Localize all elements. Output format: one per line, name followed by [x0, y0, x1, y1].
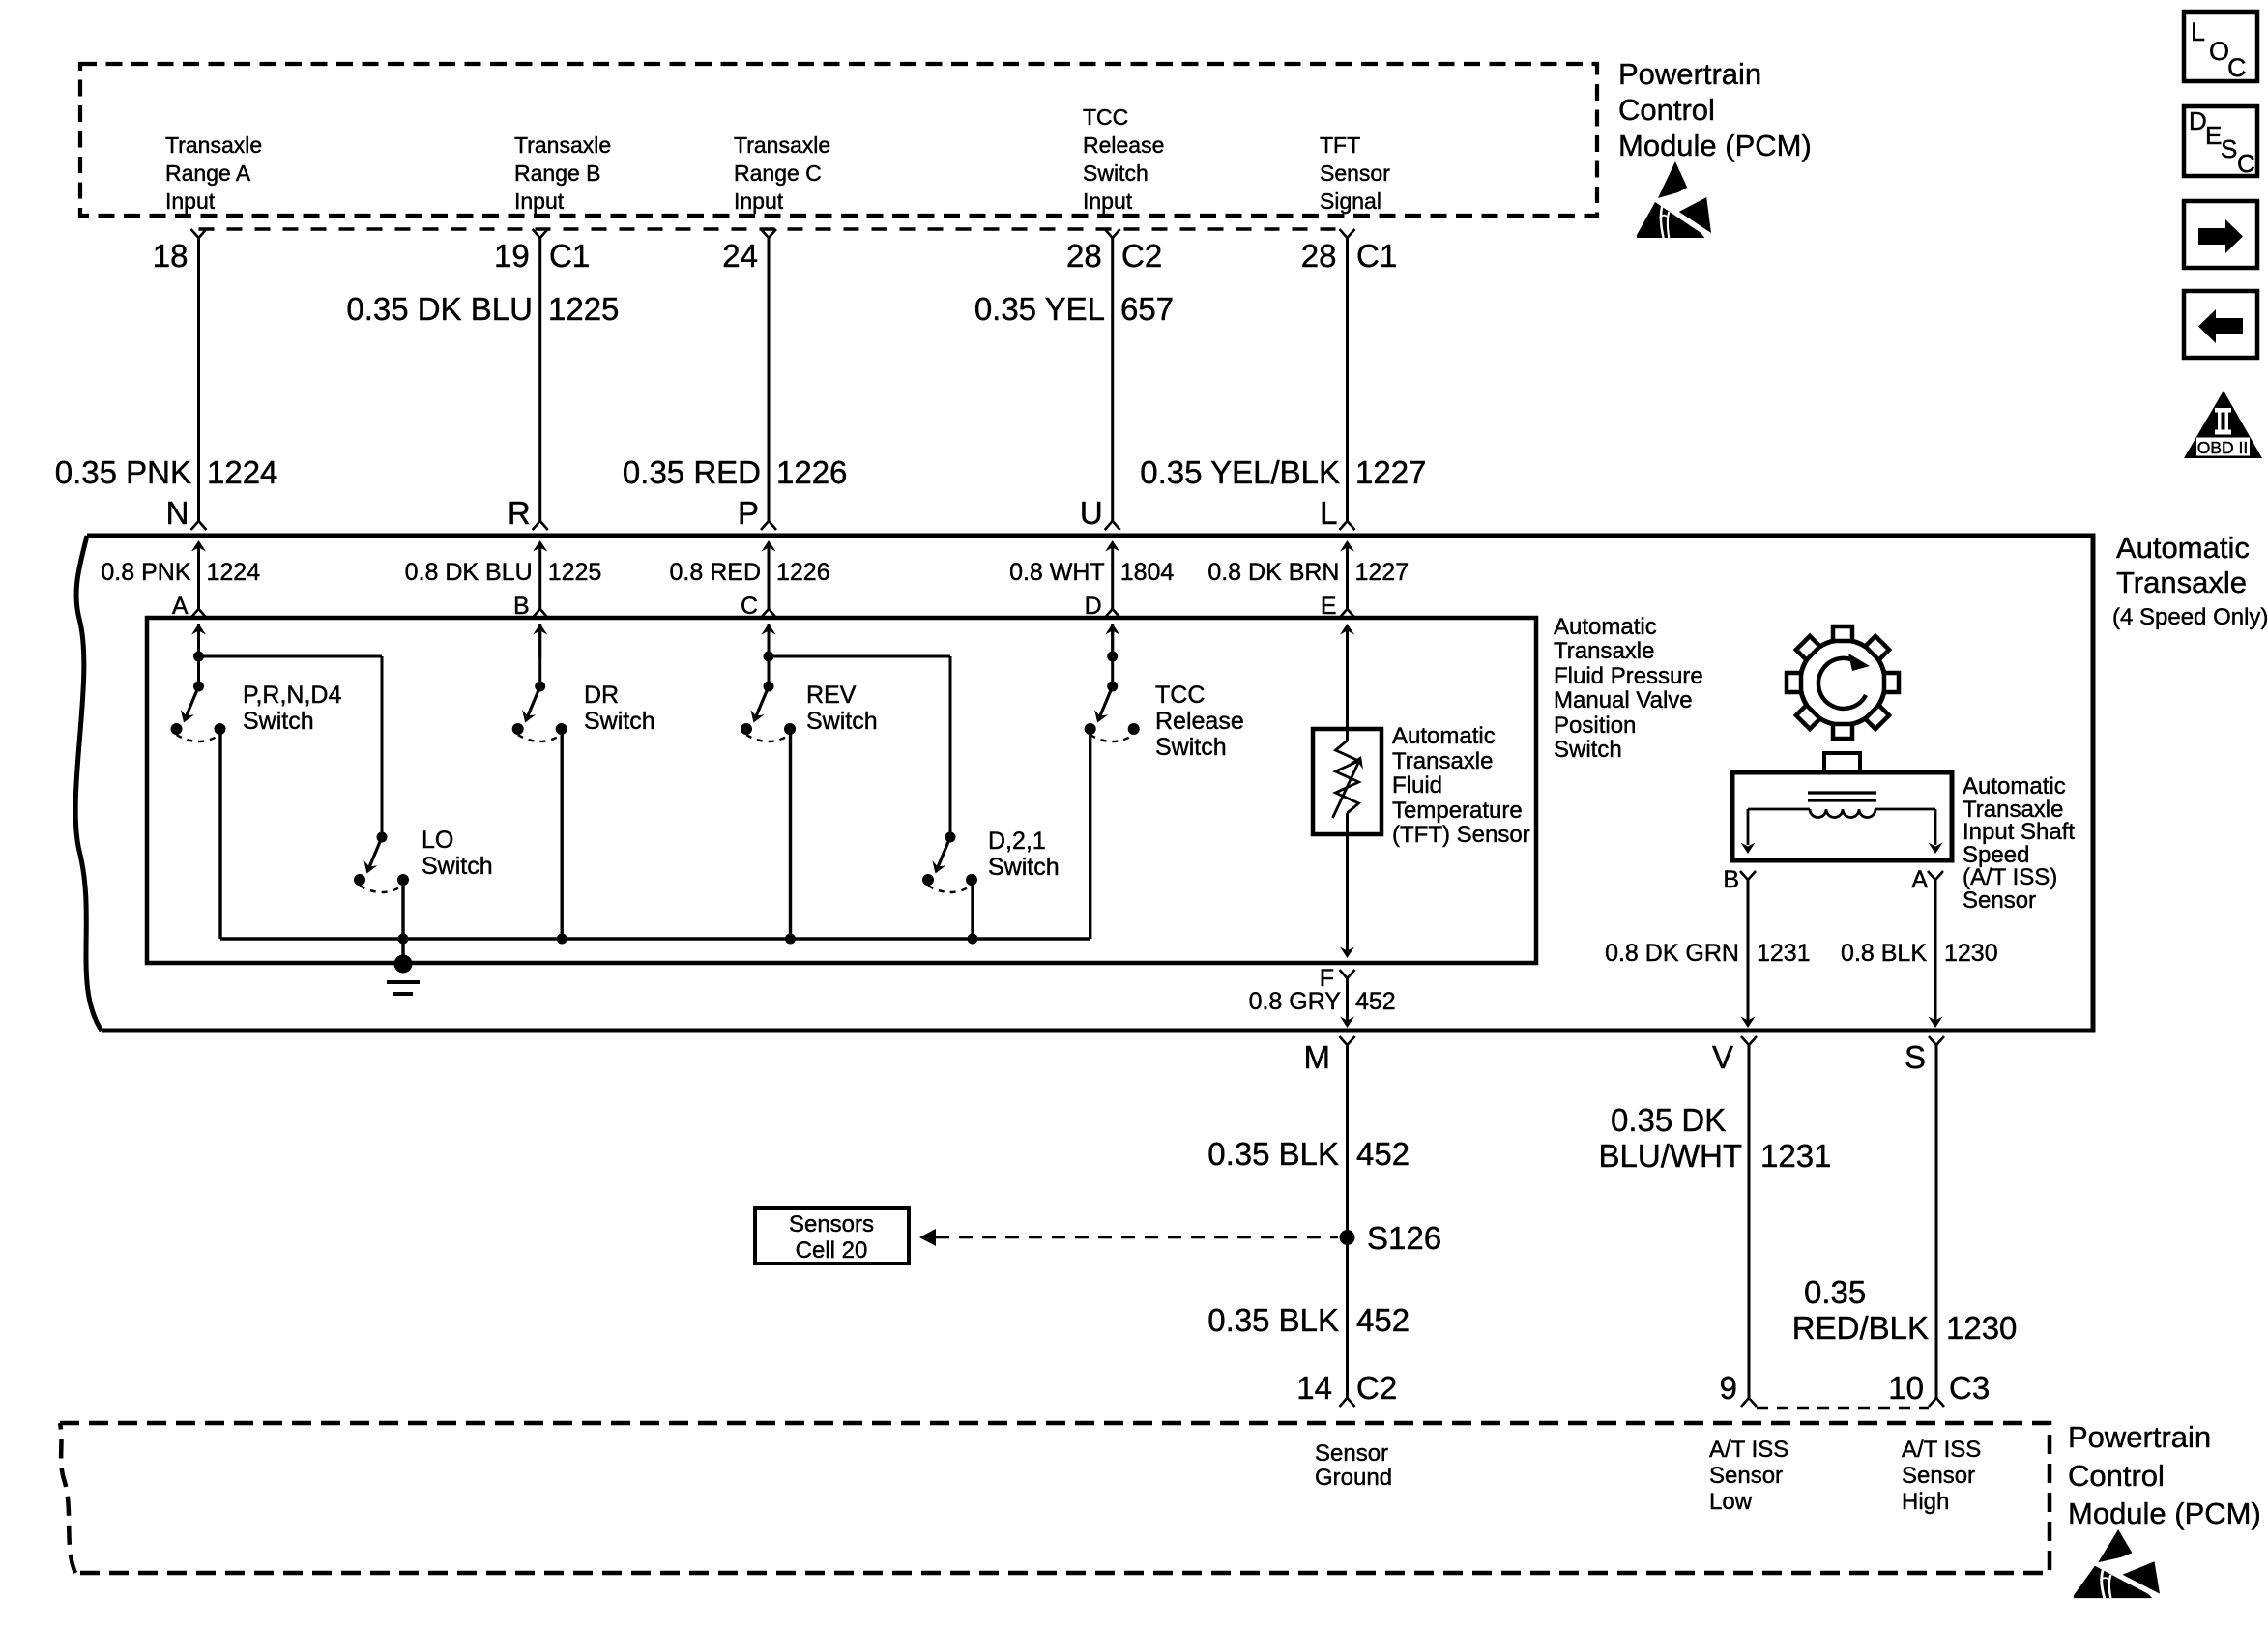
svg-text:Automatic: Automatic — [1392, 723, 1496, 749]
svg-text:19: 19 — [494, 238, 530, 274]
svg-text:Manual Valve: Manual Valve — [1554, 687, 1693, 713]
svg-text:14: 14 — [1296, 1370, 1332, 1406]
svg-text:Fluid: Fluid — [1392, 772, 1442, 799]
svg-text:S: S — [1905, 1039, 1926, 1075]
svg-text:Fluid Pressure: Fluid Pressure — [1554, 663, 1703, 689]
svg-text:Switch: Switch — [806, 708, 878, 735]
svg-text:0.8 RED: 0.8 RED — [670, 559, 761, 586]
svg-text:Cell 20: Cell 20 — [796, 1237, 868, 1264]
svg-text:0.35 PNK: 0.35 PNK — [55, 454, 191, 490]
svg-text:Control: Control — [1618, 93, 1715, 127]
svg-text:Switch: Switch — [243, 708, 314, 735]
svg-text:Input: Input — [165, 189, 216, 214]
svg-text:REV: REV — [806, 682, 857, 709]
svg-text:Transaxle: Transaxle — [165, 132, 262, 158]
svg-text:1230: 1230 — [1946, 1310, 2017, 1346]
svg-text:0.8 DK GRN: 0.8 DK GRN — [1605, 940, 1739, 967]
svg-text:(A/T ISS): (A/T ISS) — [1963, 864, 2057, 890]
svg-text:0.35: 0.35 — [1804, 1274, 1866, 1310]
svg-text:L: L — [1320, 495, 1337, 531]
svg-text:BLU/WHT: BLU/WHT — [1599, 1138, 1743, 1174]
svg-text:1231: 1231 — [1757, 940, 1811, 967]
svg-text:A/T ISS: A/T ISS — [1709, 1437, 1788, 1463]
svg-text:L: L — [2191, 17, 2205, 46]
svg-text:DR: DR — [584, 682, 619, 709]
svg-text:1226: 1226 — [776, 454, 847, 490]
svg-text:Automatic: Automatic — [2116, 531, 2250, 565]
svg-text:0.35 BLK: 0.35 BLK — [1207, 1302, 1339, 1338]
svg-text:0.35 BLK: 0.35 BLK — [1207, 1136, 1339, 1172]
svg-text:28: 28 — [1066, 238, 1102, 274]
svg-text:S126: S126 — [1367, 1220, 1441, 1256]
svg-text:OBD II: OBD II — [2197, 438, 2249, 457]
svg-text:R: R — [508, 495, 531, 531]
svg-text:B: B — [1723, 866, 1739, 893]
svg-text:P: P — [738, 495, 759, 531]
svg-text:Switch: Switch — [988, 854, 1060, 881]
svg-text:657: 657 — [1120, 291, 1174, 327]
svg-text:Input: Input — [514, 189, 565, 214]
svg-text:TFT: TFT — [1320, 132, 1360, 158]
svg-text:0.8 BLK: 0.8 BLK — [1841, 940, 1927, 967]
svg-text:C2: C2 — [1356, 1370, 1397, 1406]
svg-text:S: S — [2221, 134, 2237, 163]
svg-text:N: N — [166, 495, 189, 531]
svg-text:RED/BLK: RED/BLK — [1792, 1310, 1929, 1346]
svg-text:Powertrain: Powertrain — [2068, 1420, 2211, 1454]
svg-text:9: 9 — [1720, 1370, 1737, 1406]
svg-text:Input: Input — [1083, 189, 1133, 214]
svg-text:C2: C2 — [1121, 238, 1162, 274]
svg-text:1225: 1225 — [548, 559, 602, 586]
svg-text:1804: 1804 — [1120, 559, 1175, 586]
svg-text:C1: C1 — [549, 238, 590, 274]
svg-text:Switch: Switch — [1083, 160, 1149, 186]
svg-text:1225: 1225 — [548, 291, 619, 327]
svg-text:24: 24 — [722, 238, 758, 274]
svg-text:Sensor: Sensor — [1709, 1463, 1783, 1489]
svg-text:Range B: Range B — [514, 160, 601, 186]
svg-text:0.8 DK BRN: 0.8 DK BRN — [1207, 559, 1339, 586]
svg-text:Transaxle: Transaxle — [1554, 638, 1654, 664]
svg-text:0.35 DK BLU: 0.35 DK BLU — [346, 291, 533, 327]
svg-text:Temperature: Temperature — [1392, 798, 1523, 824]
svg-text:Sensor: Sensor — [1902, 1463, 1975, 1489]
svg-text:Automatic: Automatic — [1554, 614, 1657, 640]
svg-text:C3: C3 — [1949, 1370, 1990, 1406]
svg-text:0.35 RED: 0.35 RED — [623, 454, 761, 490]
svg-text:V: V — [1712, 1039, 1733, 1075]
svg-text:Switch: Switch — [1155, 734, 1227, 761]
svg-text:Transaxle: Transaxle — [734, 132, 830, 158]
svg-text:(4 Speed Only): (4 Speed Only) — [2112, 604, 2268, 630]
svg-text:0.35 YEL: 0.35 YEL — [974, 291, 1105, 327]
svg-text:U: U — [1080, 495, 1103, 531]
svg-text:Transaxle: Transaxle — [1392, 748, 1493, 774]
svg-text:(TFT) Sensor: (TFT) Sensor — [1392, 822, 1530, 848]
svg-text:Module (PCM): Module (PCM) — [2068, 1497, 2261, 1530]
svg-text:452: 452 — [1356, 1136, 1410, 1172]
svg-text:Signal: Signal — [1320, 189, 1381, 214]
svg-text:Sensor: Sensor — [1315, 1440, 1388, 1467]
svg-text:P,R,N,D4: P,R,N,D4 — [243, 682, 341, 709]
svg-text:Powertrain: Powertrain — [1618, 57, 1761, 91]
svg-text:A/T ISS: A/T ISS — [1902, 1437, 1981, 1463]
svg-text:E: E — [2205, 121, 2222, 150]
svg-text:1230: 1230 — [1944, 940, 1998, 967]
svg-text:452: 452 — [1355, 988, 1396, 1015]
svg-text:28: 28 — [1301, 238, 1337, 274]
svg-text:Switch: Switch — [422, 853, 493, 880]
svg-text:TCC: TCC — [1083, 104, 1128, 130]
svg-text:1227: 1227 — [1355, 559, 1410, 586]
svg-text:M: M — [1304, 1039, 1331, 1075]
svg-text:Transaxle: Transaxle — [514, 132, 611, 158]
svg-text:Sensor: Sensor — [1963, 887, 2036, 914]
svg-text:D,2,1: D,2,1 — [988, 828, 1046, 855]
svg-text:10: 10 — [1888, 1370, 1924, 1406]
svg-text:O: O — [2209, 37, 2229, 66]
svg-text:D: D — [2189, 106, 2207, 135]
svg-text:Module (PCM): Module (PCM) — [1618, 129, 1812, 162]
svg-text:C: C — [2237, 149, 2255, 178]
svg-text:High: High — [1902, 1489, 1949, 1515]
svg-text:Automatic: Automatic — [1963, 773, 2066, 799]
svg-text:TCC: TCC — [1155, 682, 1205, 709]
svg-text:C1: C1 — [1356, 238, 1397, 274]
svg-text:Release: Release — [1155, 708, 1244, 735]
svg-text:Release: Release — [1083, 132, 1164, 158]
svg-text:Switch: Switch — [584, 708, 655, 735]
svg-text:0.35 DK: 0.35 DK — [1611, 1102, 1726, 1138]
svg-text:Position: Position — [1554, 712, 1636, 739]
svg-text:Control: Control — [2068, 1459, 2165, 1493]
svg-text:LO: LO — [422, 827, 453, 854]
svg-text:Range C: Range C — [734, 160, 822, 186]
svg-text:1231: 1231 — [1760, 1138, 1831, 1174]
svg-text:Range A: Range A — [165, 160, 251, 186]
svg-text:Sensors: Sensors — [789, 1211, 874, 1237]
svg-text:1224: 1224 — [207, 559, 261, 586]
svg-text:0.8 DK BLU: 0.8 DK BLU — [405, 559, 533, 586]
svg-text:Switch: Switch — [1554, 737, 1622, 763]
svg-text:0.8 PNK: 0.8 PNK — [101, 559, 190, 586]
svg-text:1227: 1227 — [1355, 454, 1426, 490]
svg-text:Input Shaft: Input Shaft — [1963, 819, 2075, 845]
svg-text:18: 18 — [153, 238, 189, 274]
svg-text:0.8 GRY: 0.8 GRY — [1249, 988, 1342, 1015]
svg-text:1226: 1226 — [776, 559, 830, 586]
svg-text:0.35 YEL/BLK: 0.35 YEL/BLK — [1140, 454, 1340, 490]
svg-text:Ground: Ground — [1315, 1465, 1392, 1491]
svg-text:A: A — [1911, 866, 1928, 893]
svg-text:Sensor: Sensor — [1320, 160, 1390, 186]
svg-text:0.8 WHT: 0.8 WHT — [1009, 559, 1105, 586]
svg-text:Input: Input — [734, 189, 784, 214]
svg-text:Transaxle: Transaxle — [2116, 566, 2247, 599]
svg-text:C: C — [2227, 53, 2247, 82]
svg-text:1224: 1224 — [207, 454, 277, 490]
svg-text:452: 452 — [1356, 1302, 1410, 1338]
svg-text:Low: Low — [1709, 1489, 1753, 1515]
